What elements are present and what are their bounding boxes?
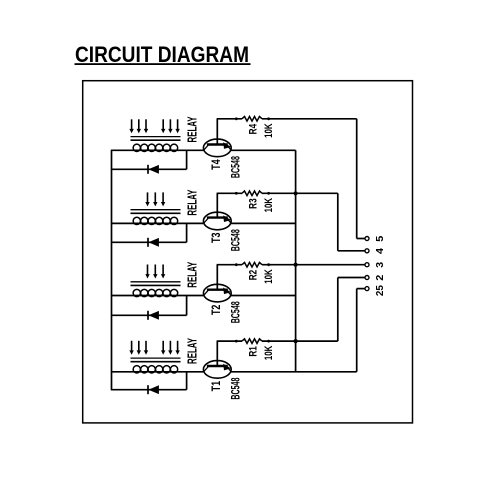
relay coil T4 block	[111, 144, 203, 151]
wire: common emitter bus	[295, 150, 297, 371]
relay coil T1 block	[111, 366, 203, 373]
label T1	[209, 381, 223, 392]
relay contact arrows T1	[129, 341, 179, 355]
flyback diode (T4 block)	[148, 165, 159, 174]
label 5 (terminal)	[374, 236, 386, 242]
svg-text:RELAY: RELAY	[184, 262, 199, 288]
svg-text:T4: T4	[209, 159, 223, 170]
label 10K (R2)	[263, 269, 275, 284]
svg-text:T1: T1	[209, 381, 223, 392]
svg-text:R3: R3	[248, 198, 260, 209]
label BC548 (T2)	[229, 301, 243, 323]
junction dot (bus / R2 line)	[294, 263, 298, 267]
svg-text:10K: 10K	[263, 123, 275, 138]
wire: base line T3	[217, 192, 242, 194]
label RELAY (T3 block)	[184, 189, 199, 215]
terminal 5	[365, 237, 369, 241]
svg-text:RELAY: RELAY	[184, 116, 199, 142]
wire: base line T4	[217, 118, 242, 120]
junction dot (bus / R1 line)	[294, 339, 298, 343]
svg-text:4: 4	[374, 248, 386, 254]
label R4	[248, 123, 260, 134]
svg-text:RELAY: RELAY	[184, 189, 199, 215]
label R1	[248, 346, 260, 357]
transistor T4 BC548	[203, 119, 231, 157]
resistor R4 10K	[235, 117, 270, 122]
svg-text:10K: 10K	[263, 198, 275, 213]
label R3	[248, 198, 260, 209]
label 4 (terminal)	[374, 248, 386, 254]
svg-text:BC548: BC548	[229, 377, 243, 399]
wire: diode branch T1	[111, 372, 187, 390]
label 3 (terminal)	[374, 262, 386, 268]
relay core lines T1	[131, 358, 181, 362]
flyback diode (T2 block)	[148, 311, 159, 320]
transistor T2 BC548	[203, 265, 231, 302]
transistor T1 BC548	[203, 341, 231, 378]
wire: diode branch T2	[111, 296, 187, 316]
label T2	[209, 304, 223, 315]
flyback diode (T3 block)	[148, 238, 159, 247]
title: CIRCUIT DIAGRAM	[75, 42, 251, 67]
wire: emitter T3	[231, 222, 296, 224]
label 25 (terminal)	[374, 285, 386, 296]
relay core lines T4	[131, 137, 181, 141]
wire: base line T1	[217, 340, 242, 342]
terminal 25	[365, 287, 369, 291]
terminal 4	[365, 249, 369, 253]
wire: R2 base line to terminal 3	[262, 264, 365, 266]
schematic border box	[83, 81, 413, 423]
label 10K (R3)	[263, 198, 275, 213]
wire: emitter T4	[231, 149, 296, 151]
label BC548 (T4)	[229, 156, 243, 178]
wire: diode branch T4	[111, 150, 187, 169]
label 10K (R1)	[263, 346, 275, 361]
svg-text:T3: T3	[209, 232, 223, 243]
wire: R3 base line to terminal 4	[262, 193, 365, 251]
svg-text:10K: 10K	[263, 269, 275, 284]
relay contact arrows T2	[145, 265, 165, 279]
svg-text:R4: R4	[248, 123, 260, 134]
junction dot (bus / R3 line)	[294, 191, 298, 195]
relay core lines T2	[131, 282, 181, 286]
wire: left supply bus	[111, 150, 113, 389]
label RELAY (T4 block)	[184, 116, 199, 142]
svg-text:BC548: BC548	[229, 156, 243, 178]
label T3	[209, 232, 223, 243]
flyback diode (T1 block)	[148, 385, 159, 394]
resistor R3 10K	[235, 191, 270, 196]
resistor R1 10K	[235, 339, 270, 344]
svg-text:5: 5	[374, 236, 386, 242]
svg-text:BC548: BC548	[229, 301, 243, 323]
label RELAY (T2 block)	[184, 262, 199, 288]
svg-text:10K: 10K	[263, 346, 275, 361]
svg-text:R2: R2	[248, 270, 260, 281]
svg-text:3: 3	[374, 262, 386, 268]
relay core lines T3	[131, 210, 181, 214]
svg-text:RELAY: RELAY	[184, 338, 199, 364]
relay coil T3 block	[111, 217, 203, 224]
wire: emitter T2	[231, 295, 296, 297]
svg-text:2: 2	[374, 275, 386, 281]
label BC548 (T3)	[229, 229, 243, 251]
label 10K (R4)	[263, 123, 275, 138]
svg-text:R1: R1	[248, 346, 260, 357]
relay contact arrows T3	[145, 192, 165, 206]
resistor R2 10K	[235, 262, 270, 267]
svg-text:T2: T2	[209, 304, 223, 315]
label R2	[248, 270, 260, 281]
transistor T3 BC548	[203, 193, 231, 230]
label T4	[209, 159, 223, 170]
wire: R4 base line to terminal 5	[262, 119, 365, 239]
svg-text:BC548: BC548	[229, 229, 243, 251]
label RELAY (T1 block)	[184, 338, 199, 364]
terminal 3	[365, 263, 369, 267]
relay coil T2 block	[111, 289, 203, 296]
relay contact arrows T4	[129, 119, 179, 133]
label 2 (terminal)	[374, 275, 386, 281]
wire: diode branch T3	[111, 223, 187, 242]
wire: base line T2	[217, 264, 242, 266]
label BC548 (T1)	[229, 377, 243, 399]
terminal 2	[365, 276, 369, 280]
svg-text:25: 25	[374, 285, 386, 296]
wire: R1 base line to terminal 2	[262, 278, 365, 342]
wire: emitter T1	[231, 371, 357, 373]
wire: terminal 25 to emitter rail	[357, 289, 365, 372]
